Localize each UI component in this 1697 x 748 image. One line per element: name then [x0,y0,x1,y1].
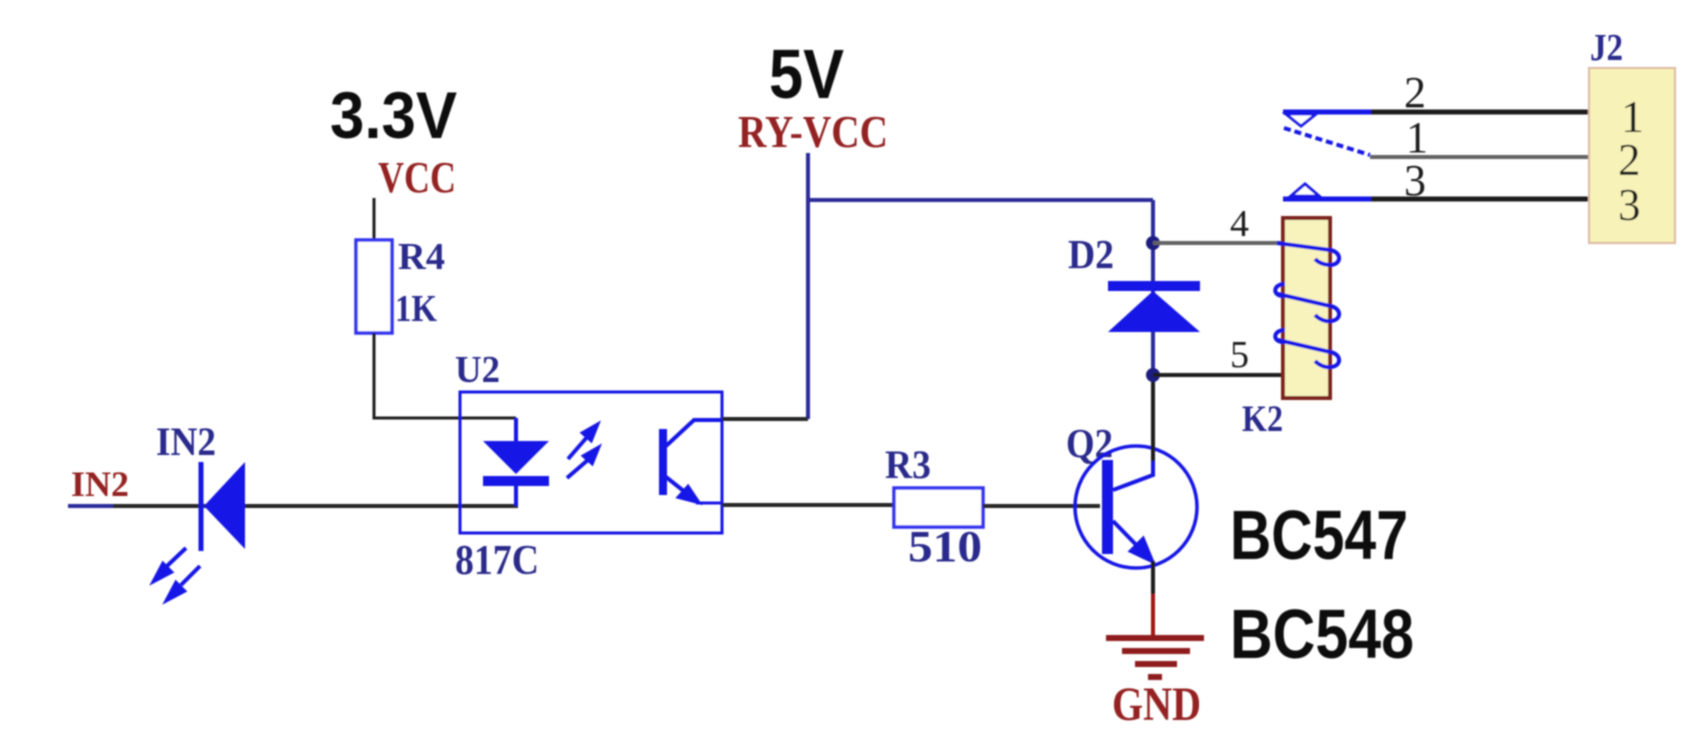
U2 light arrow 2 [567,448,598,478]
svg-text:U2: U2 [455,349,500,391]
svg-text:BC548: BC548 [1230,595,1414,673]
wire R4 to U2 anode [374,333,516,418]
U2 LED cathode bar [483,476,549,486]
diode D2 triangle [1108,291,1200,332]
svg-text:3: 3 [1618,180,1641,230]
resistor R3 [894,488,983,527]
connector J2 body [1589,68,1675,243]
svg-text:4: 4 [1230,203,1249,245]
U2 phototransistor collector [666,420,722,446]
LED input diode cathode bar [199,462,204,551]
wire U2 collector to rail [722,417,808,421]
svg-text:D2: D2 [1068,231,1114,277]
svg-text:IN2: IN2 [156,419,216,464]
op-to coupler U2 box [460,392,722,533]
wire VCC to R4 [373,198,376,241]
LED light arrow 2 [167,566,200,600]
wire IN2 to U2 [113,504,518,508]
wire IN2 stub (blue) [68,504,114,508]
svg-text:GND: GND [1112,678,1201,731]
switch blade [1284,128,1370,155]
transistor Q2 base bar [1102,460,1113,554]
svg-text:R3: R3 [885,442,931,487]
wire RY-VCC vertical rail [806,153,810,419]
U2 LED anode lead [514,418,518,442]
switch NO contact arrow [1291,184,1319,196]
U2 LED triangle [483,441,549,474]
relay K2 coil box [1283,218,1330,398]
svg-text:Q2: Q2 [1066,420,1113,466]
wire to ground (dark red) [1151,594,1155,636]
relay K2 coil winding [1275,243,1339,367]
U2 LED cathode lead [514,486,518,506]
U2 phototransistor emitter [666,477,722,503]
svg-text:BC547: BC547 [1230,496,1408,574]
U2 light arrow 1 [568,425,597,459]
U2 phototransistor base bar [659,429,667,495]
junction node top [1146,236,1160,250]
transistor Q2 collector (blue) [1113,458,1153,490]
junction node bottom [1146,368,1160,382]
wire contact 2 to J2 pin2 [1370,155,1590,159]
svg-text:5V: 5V [769,35,844,113]
LED input diode triangle [204,462,245,549]
transistor Q2 circle [1075,446,1197,568]
wire contact 3 to J2 pin3 [1371,197,1590,202]
svg-text:K2: K2 [1242,399,1283,440]
LED light arrow 1 [154,548,186,581]
transistor Q2 emitter [1113,521,1152,561]
wire contact 3 blue [1283,197,1371,202]
ground symbol [1106,638,1204,677]
svg-text:817C: 817C [455,538,539,584]
switch common arrow [1286,114,1316,126]
wire R3 to Q2 base [983,504,1100,508]
svg-text:R4: R4 [398,236,445,278]
wire pin4 [1153,241,1285,245]
svg-text:5: 5 [1230,334,1249,376]
wire relay rail down to D2 top junction [1151,200,1155,375]
svg-text:3.3V: 3.3V [330,78,457,152]
diode D2 cathode bar [1108,281,1200,291]
svg-text:VCC: VCC [378,153,456,202]
resistor R4 [356,240,392,333]
wire contact 1 to J2 pin1 [1371,110,1590,115]
svg-text:J2: J2 [1590,27,1623,69]
wire D2 bottom junction to Q2 collector [1151,375,1155,461]
wire Q2 emitter down (black) [1151,561,1155,594]
svg-text:2: 2 [1618,135,1641,185]
wire U2 emitter to R3 [722,503,895,507]
svg-text:3: 3 [1404,156,1426,205]
wire RY-VCC to relay top [808,198,1153,202]
svg-text:1K: 1K [395,288,437,330]
svg-text:2: 2 [1404,68,1426,117]
svg-text:RY-VCC: RY-VCC [738,106,888,157]
svg-text:510: 510 [908,522,982,571]
svg-text:1: 1 [1406,113,1428,162]
wire pin5 [1153,373,1285,377]
svg-text:IN2: IN2 [71,464,129,504]
wire contact 1 blue [1283,110,1371,115]
